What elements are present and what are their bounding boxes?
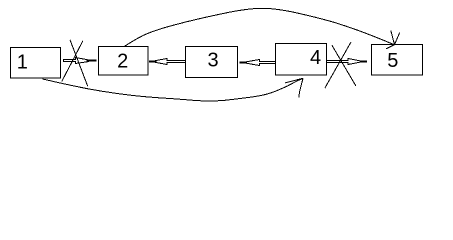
arrow 4-5 solid tip	[360, 61, 367, 63]
node box 5	[372, 45, 423, 76]
node box 1	[11, 48, 61, 79]
node box 3	[186, 47, 238, 78]
arrow 3-2 solid tip	[149, 61, 157, 63]
svg-text:5: 5	[387, 50, 398, 72]
top arc arrowhead barb 3	[395, 32, 400, 44]
arrow from 4 to 3 (points left, open arrow outline)	[245, 60, 276, 66]
arrow from 3 to 2 (points left, open arrow outline)	[154, 59, 186, 65]
bottom arc arrowhead barb 1	[285, 78, 303, 83]
arrow 4-3 solid tip	[239, 62, 247, 64]
arrow 1-2 solid tip	[87, 60, 97, 62]
node box 2	[99, 47, 149, 76]
X mark crossing arrow 4-5, leg A	[332, 45, 356, 86]
curved arrow from 2 to 5 (top arc)	[124, 8, 394, 46]
X mark crossing arrow 1-2, leg B	[62, 41, 83, 82]
svg-text:2: 2	[117, 50, 128, 72]
svg-text:1: 1	[17, 51, 28, 73]
X mark crossing arrow 4-5, leg B	[325, 42, 351, 88]
X mark crossing arrow 1-2, leg A	[70, 40, 88, 86]
top arc arrowhead barb 2	[391, 31, 395, 45]
arrow from 4 to 5 (points right, open arrow outline)	[327, 59, 361, 65]
top arc arrowhead barb 1	[386, 45, 394, 49]
bottom arc arrowhead barb 2	[299, 78, 303, 97]
svg-text:4: 4	[310, 47, 321, 69]
svg-text:3: 3	[207, 50, 218, 72]
arrow from 1 to 2 (open arrow outline)	[64, 58, 90, 64]
curved arrow from 1 to 4 (bottom arc)	[43, 79, 303, 102]
node box 4	[276, 44, 327, 76]
